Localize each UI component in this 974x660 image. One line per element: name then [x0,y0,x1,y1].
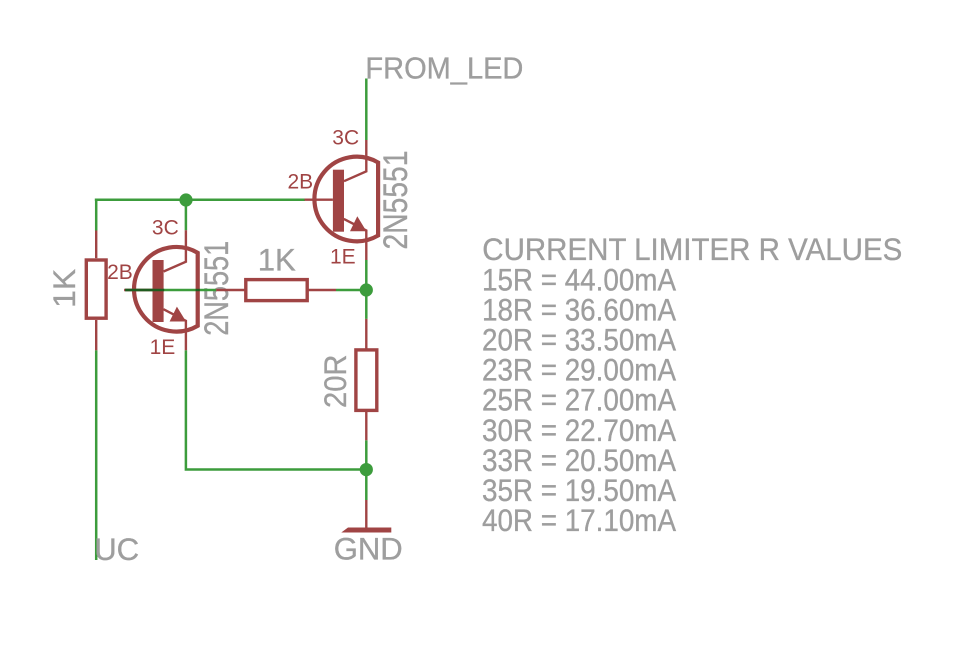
svg-text:2N5551: 2N5551 [198,241,236,336]
svg-text:GND: GND [334,531,403,567]
svg-text:UC: UC [94,531,139,567]
svg-text:20R: 20R [317,355,353,409]
svg-text:FROM_LED: FROM_LED [365,52,523,86]
svg-text:1K: 1K [258,241,296,277]
svg-text:1K: 1K [46,269,82,308]
svg-text:2N5551: 2N5551 [377,151,415,250]
svg-text:40R = 17.10mA: 40R = 17.10mA [482,502,676,538]
